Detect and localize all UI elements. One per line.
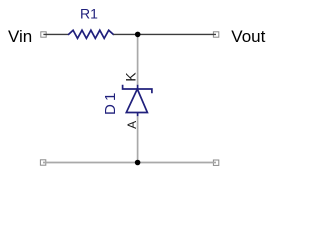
label Vin [8, 27, 32, 46]
label R1 [80, 5, 98, 21]
wire top junction to D1 cathode [137, 34, 139, 85]
wire bottom rail left [43, 162, 138, 164]
wire R1 to top junction [113, 33, 137, 35]
terminal bottom right [213, 160, 218, 165]
junction top node [135, 32, 141, 38]
wire D1 anode to bottom junction [137, 116, 139, 162]
terminal bottom left [40, 160, 45, 165]
resistor R1 [69, 30, 114, 38]
terminal Vout [213, 32, 218, 37]
wire top junction to Vout terminal [138, 33, 216, 35]
svg-text:D1: D1 [102, 89, 119, 115]
label Vout [231, 27, 265, 46]
svg-text:Vin: Vin [8, 27, 32, 46]
wire Vin terminal to R1 [43, 33, 68, 35]
wire bottom rail right [138, 162, 216, 164]
svg-text:K: K [123, 72, 139, 82]
svg-text:R1: R1 [80, 5, 98, 21]
svg-text:Vout: Vout [231, 27, 265, 46]
terminal Vin [41, 32, 46, 37]
junction bottom node [135, 160, 141, 166]
diode D1 (zener) [123, 85, 152, 117]
label D1 [102, 89, 119, 115]
pin label K [123, 72, 139, 82]
pin label A [125, 121, 139, 129]
